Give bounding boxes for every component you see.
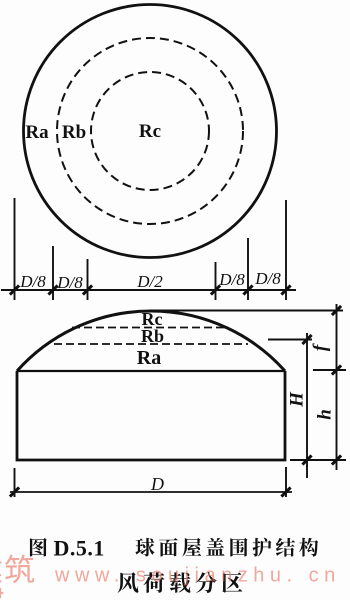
svg-text:D.5.1: D.5.1	[54, 536, 105, 561]
svg-text:Rc: Rc	[139, 121, 161, 142]
svg-text:Ra: Ra	[25, 122, 49, 143]
svg-text:www. soujianzhu. cn: www. soujianzhu. cn	[54, 565, 341, 587]
svg-text:Rb: Rb	[62, 122, 86, 143]
svg-text:D/8: D/8	[254, 269, 281, 288]
svg-text:Rb: Rb	[141, 326, 164, 346]
svg-text:D/2: D/2	[136, 272, 163, 291]
svg-text:D/8: D/8	[56, 273, 83, 292]
svg-text:h: h	[315, 409, 336, 420]
svg-text:D: D	[150, 474, 164, 494]
svg-text:D/8: D/8	[19, 272, 46, 291]
svg-text:D/8: D/8	[218, 270, 245, 289]
svg-text:Ra: Ra	[137, 347, 161, 369]
svg-text:H: H	[287, 391, 308, 408]
